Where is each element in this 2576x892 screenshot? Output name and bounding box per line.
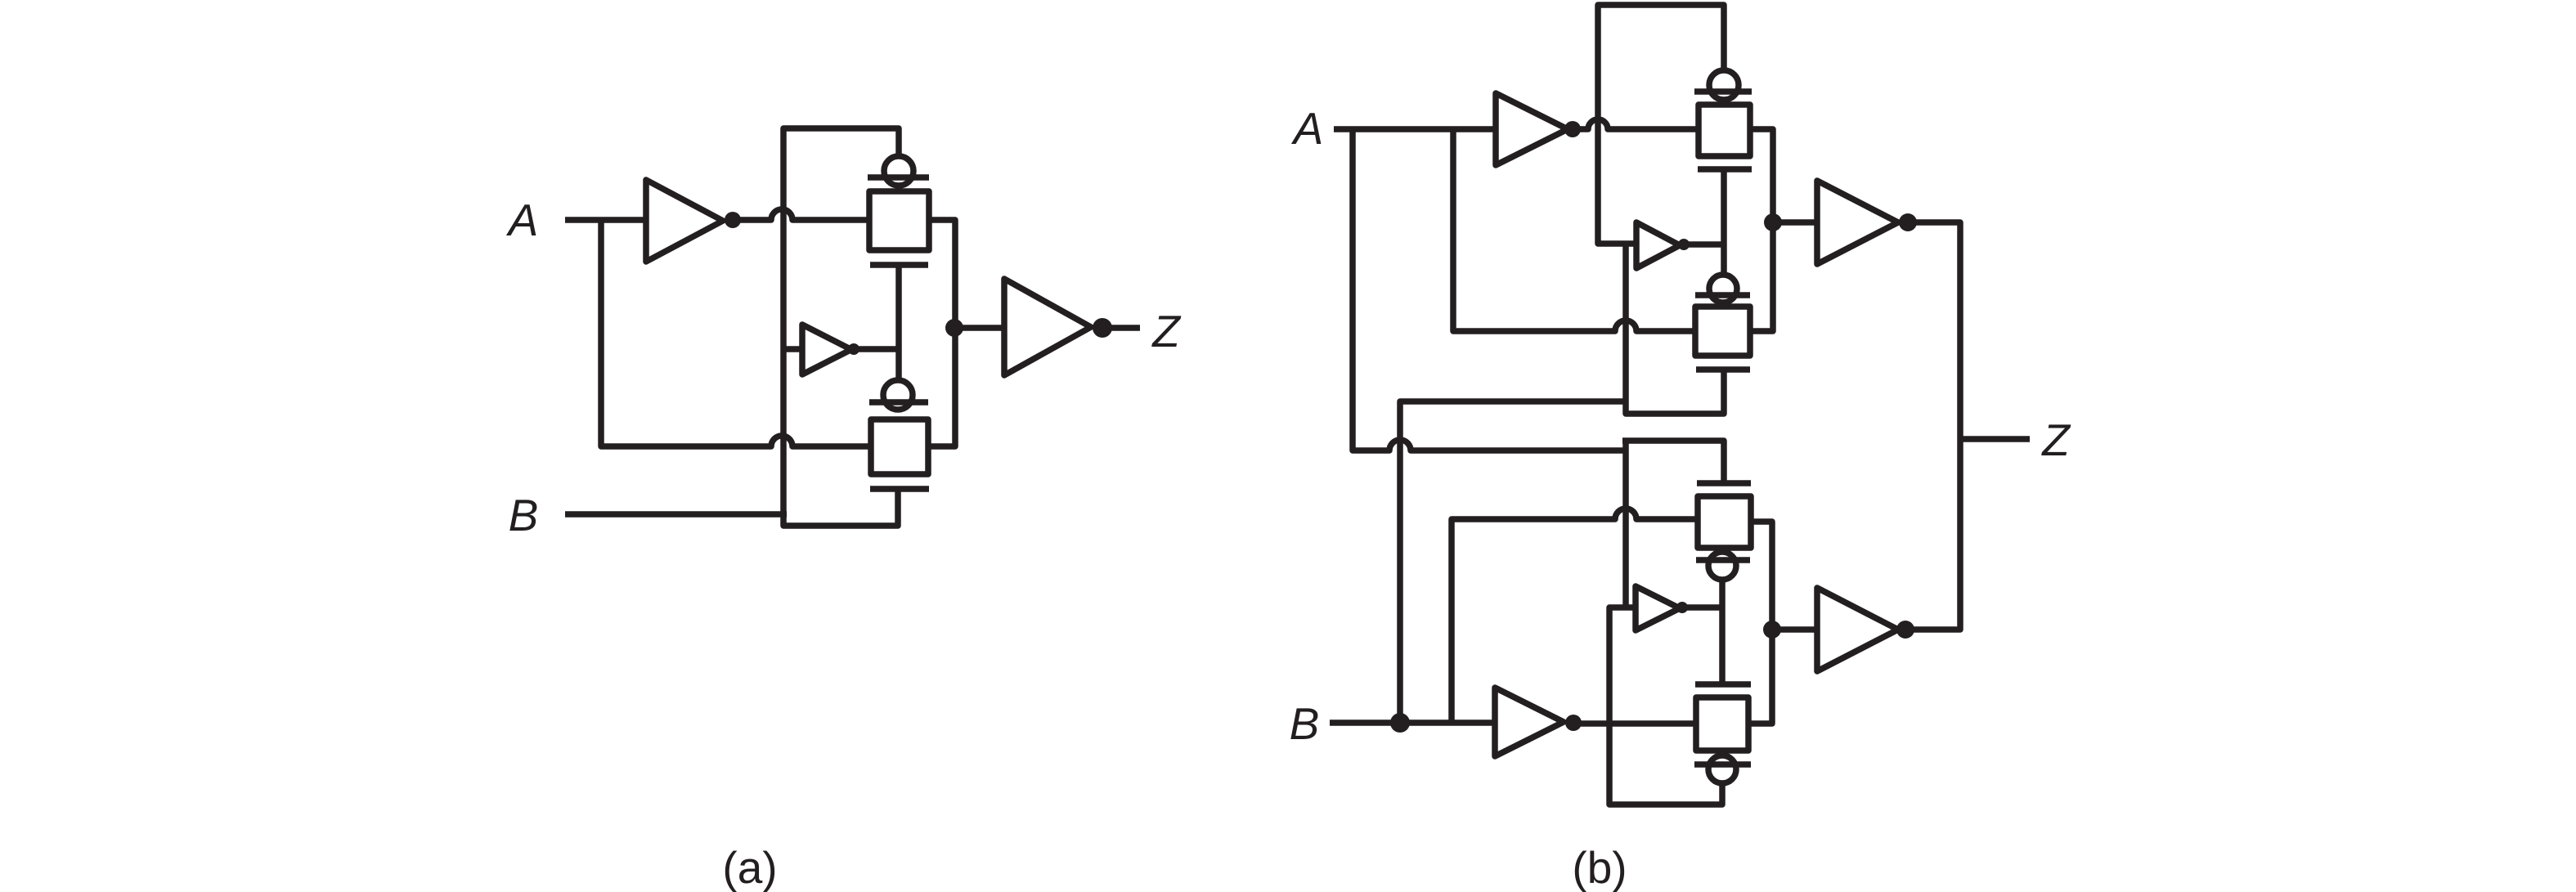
wire: upper node to inverter input (b) (1773, 219, 1817, 226)
wire: input B (b) (1330, 719, 1495, 726)
lower output inverter (b) (1817, 588, 1898, 671)
TG1 NMOS gate bar (a) (870, 262, 928, 268)
wire: input B (a) (565, 511, 787, 518)
wire: Z rail joining both inverter outputs (b) (1905, 222, 1960, 630)
TG2 NMOS gate bar (a) (870, 486, 929, 492)
svg-text:(a): (a) (722, 842, 777, 892)
wire: input A (b) (1334, 126, 1496, 132)
wire: A tee down to lower small inverter input (b) (1622, 441, 1629, 607)
upper TG1 NMOS gate bar (b) (1698, 166, 1752, 173)
wire: inverter output to TG1 input (a), hop over B vertical (733, 209, 869, 220)
transmission gate TG2 body (a) (871, 419, 928, 474)
inverter U2 output bubble (a) (848, 343, 859, 355)
wire: B line to small inverter input (a) (783, 346, 802, 352)
TG2 PMOS gate bubble (a) (883, 380, 913, 410)
svg-text:B: B (509, 490, 539, 540)
upper output inverter (b) (1817, 181, 1898, 264)
output inverter U3 (a) (1004, 279, 1091, 375)
svg-text:(b): (b) (1572, 842, 1627, 892)
wire: upper TG NMOS stub down to mid TG bubble (b) (1721, 169, 1727, 275)
inverter A output bubble (b) (1564, 121, 1581, 137)
mid TG NMOS gate bar (b) (1696, 366, 1750, 373)
wire: TG1 NMOS gate stub down to TG2 bubble (a) (895, 265, 902, 380)
wire: B branch-2 up/across to lower TG1 input with hop (b) (1452, 509, 1698, 723)
wire: lower node to inverter input (b) (1772, 626, 1817, 633)
lower small inverter output bubble (b) (1676, 602, 1688, 613)
wire: upper control riser, top rail to TG bubble, small inverter feed (b) (1598, 5, 1724, 244)
svg-text:Z: Z (1151, 306, 1182, 356)
wire: TG1/TG2 outputs joined at node (a) (928, 220, 955, 446)
inverter B output bubble (b) (1565, 715, 1582, 731)
lower TG2 NMOS gate bar (b) (1695, 681, 1751, 688)
svg-text:B: B (1290, 698, 1320, 749)
lower TG1 PMOS gate bar (b) (1696, 557, 1750, 563)
wire: A branch-2 down/across to mid TG input with hop (b) (1453, 129, 1695, 331)
wire: upper small inverter output (b) (1684, 241, 1724, 248)
wire: A branch-1 down to A rail with hop over B riser (b) (1353, 129, 1627, 450)
lower TG1 PMOS bubble (b) (1708, 552, 1736, 580)
junction node TG outputs (a) (945, 319, 963, 337)
small inverter U2 on B control (a) (802, 325, 851, 374)
upper small inverter (b) (1636, 222, 1680, 268)
upper output inverter bubble (b) (1899, 213, 1917, 231)
lower TG2 PMOS gate bar (b) (1694, 761, 1751, 768)
wire: inverter B output to lower TG2 input, plain crossing (b) (1573, 720, 1695, 727)
lower node junction (b) (1763, 621, 1781, 639)
wire: B vertical with top rail to TG1 bubble and bottom run to TG2 NMOS gate (a) (783, 128, 899, 526)
wire: Z stub (b) (1960, 436, 2030, 442)
wire: output inverter to Z (a) (1102, 325, 1140, 331)
upper TG1 PMOS bubble (b) (1709, 70, 1739, 100)
wire: A rail right jog to lower TG1 gate bar (b) (1622, 441, 1724, 483)
TG1 PMOS gate bar (a) (868, 174, 929, 181)
upper small inverter output bubble (b) (1678, 239, 1690, 250)
wire: upper block TG outputs joined (b) (1750, 129, 1773, 331)
transmission gate TG1 body (a) (869, 191, 929, 250)
wire: lower small inverter output (b) (1682, 604, 1722, 611)
wire: B control down to mid TG NMOS gate (b) (1626, 244, 1724, 414)
inverter U3 output bubble (a) (1093, 318, 1112, 338)
lower TG1 NMOS gate bar (b) (1697, 480, 1751, 486)
wire: lower block TG outputs joined (b) (1751, 522, 1772, 724)
inverter U1 on input A (a) (646, 180, 723, 262)
wire: lower TG1 bubble stub to lower TG2 gate bar (b) (1719, 580, 1726, 684)
lower TG2 body (b) (1696, 697, 1748, 751)
svg-text:A: A (1291, 103, 1324, 154)
inverter on input A (b) (1496, 93, 1568, 165)
wire: inverter A output to upper TG input, hop over control riser (b) (1573, 119, 1699, 129)
wire: B riser up and across to control tee (b) (1400, 401, 1626, 723)
upper TG1 PMOS gate bar (b) (1694, 88, 1752, 95)
lower TG1 body (b) (1698, 496, 1751, 548)
lower small inverter (b) (1636, 586, 1680, 630)
upper node junction (b) (1764, 213, 1782, 231)
TG1 PMOS gate bubble (a) (884, 156, 913, 186)
lower TG2 PMOS bubble (b) (1708, 755, 1736, 783)
TG2 PMOS gate bar (a) (869, 399, 928, 406)
inverter on input B (b) (1495, 688, 1564, 756)
wire: small inverter output to gate stub (a) (854, 346, 899, 352)
inverter U1 output bubble (a) (725, 212, 741, 228)
mid TG body (b) (1695, 307, 1750, 356)
wire: A branch down/across to TG2 input (a), hop over B vertical (601, 220, 871, 446)
wire: node to output inverter input (a) (954, 325, 1004, 331)
upper TG1 body (b) (1699, 105, 1750, 156)
lower output inverter bubble (b) (1896, 621, 1914, 639)
svg-text:Z: Z (2040, 415, 2071, 465)
wire: lower small inverter input, A run down bottom rail to TG2 bubble (b) (1609, 607, 1722, 805)
mid TG PMOS gate bar (b) (1695, 292, 1750, 298)
mid TG PMOS bubble (b) (1709, 275, 1737, 303)
wire: input A to inverter (a) (565, 217, 646, 223)
junction node on B (b) (1390, 713, 1410, 733)
svg-text:A: A (506, 195, 539, 245)
